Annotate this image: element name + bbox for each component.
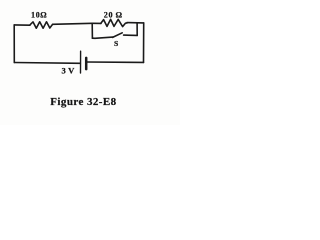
wire: parallel-box left vertical	[91, 23, 93, 38]
svg-text:10Ω: 10Ω	[31, 11, 47, 20]
battery 3V: short thick plate	[85, 58, 88, 69]
wire: top right segment	[127, 22, 144, 24]
resistor R1 10-ohm zigzag	[30, 22, 53, 28]
svg-text:Figure 32-E8: Figure 32-E8	[50, 96, 116, 108]
wire: bottom right segment	[87, 61, 144, 63]
switch S: left wire	[92, 37, 112, 38]
switch S: right wire	[124, 34, 138, 36]
wire: top middle segment	[53, 23, 93, 24]
wire: 20-ohm branch entry	[92, 22, 101, 24]
wire: parallel-box right vertical	[136, 23, 138, 36]
svg-text:V: V	[68, 65, 75, 75]
svg-text:S: S	[114, 39, 118, 48]
switch S: lever	[113, 33, 123, 38]
wire: bottom left segment	[14, 62, 80, 65]
resistor R2 20-ohm zigzag	[101, 19, 127, 26]
battery 3V: long plate	[80, 51, 82, 73]
wire: left vertical edge	[13, 25, 15, 63]
wire: right vertical edge	[143, 23, 145, 63]
svg-text:20 Ω: 20 Ω	[104, 10, 123, 19]
svg-text:3: 3	[62, 65, 66, 75]
wire: top-left segment	[14, 24, 30, 26]
